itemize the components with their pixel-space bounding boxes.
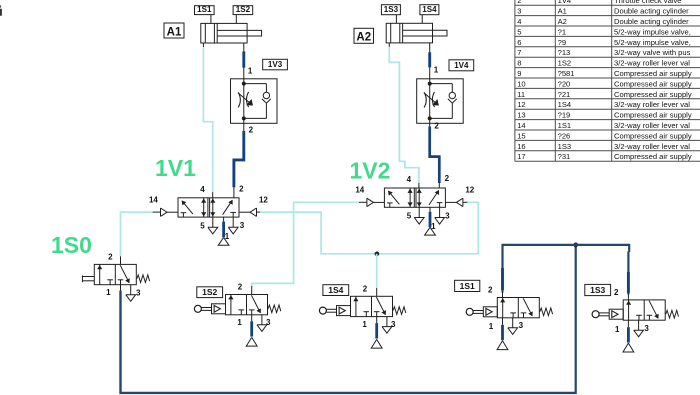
pin label 1S2 port 3 [266, 318, 271, 327]
svg-text:9: 9 [517, 69, 521, 78]
svg-text:2: 2 [434, 121, 439, 130]
pin label 1V2 port 5 [407, 212, 412, 221]
svg-text:3: 3 [519, 321, 524, 330]
svg-text:3: 3 [391, 320, 396, 329]
label box 1S3 [585, 284, 611, 295]
throttle check valve 1V4 [417, 79, 464, 124]
svg-text:17: 17 [517, 152, 525, 161]
wire A1 to 1V3 (navy) [242, 52, 245, 68]
svg-text:3: 3 [517, 7, 521, 16]
svg-text:1: 1 [434, 65, 439, 74]
svg-text:2: 2 [614, 288, 619, 297]
label box 1S2 [197, 287, 223, 298]
supply stub 1V2 port 1 [429, 212, 432, 227]
label box 1S1 [455, 280, 480, 291]
svg-text:6: 6 [517, 38, 521, 47]
svg-text:2: 2 [249, 125, 254, 134]
svg-text:Compressed air supply: Compressed air supply [614, 111, 692, 120]
svg-text:2: 2 [239, 184, 244, 193]
svg-text:11: 11 [517, 90, 525, 99]
svg-text:1: 1 [362, 320, 367, 329]
pin label 1S1 port 1 [489, 322, 494, 331]
wire 1V3 port1 stub [243, 67, 245, 78]
svg-text:3: 3 [445, 211, 450, 220]
wire A2 to 1V2 port4 (cyan) [389, 47, 419, 184]
svg-text:2: 2 [238, 283, 243, 292]
pin label 1S0 port 1 [106, 288, 111, 297]
wire 1V1 pilot12 connector [257, 211, 261, 213]
supply stub 1S1 port 1 [502, 318, 504, 340]
svg-text:14: 14 [355, 186, 364, 195]
wire 1V4 port1 stub [429, 67, 431, 79]
wire bottom rail (navy) [119, 392, 575, 394]
svg-text:Double acting cylinder: Double acting cylinder [614, 7, 689, 16]
svg-text:?31: ?31 [558, 152, 571, 161]
svg-text:12: 12 [259, 196, 268, 205]
svg-text:?13: ?13 [558, 48, 571, 57]
throttle check valve 1V3 [231, 79, 278, 124]
wire 1S1-1S3 header (navy) [503, 244, 630, 246]
wire 1S3 port2 stub [627, 294, 629, 300]
svg-text:?581: ?581 [558, 69, 575, 78]
svg-text:1V4: 1V4 [454, 61, 469, 70]
air supply 1V2 [425, 227, 436, 235]
junction node supply net [574, 243, 578, 247]
svg-text:1S1: 1S1 [197, 5, 212, 14]
5/2-way impulse valve 1V2 [367, 188, 463, 224]
wire 1S3 port2 riser thick [627, 272, 630, 293]
wire stub 1V1 port4 [212, 192, 214, 198]
pin label 1V1 port 1 [225, 232, 230, 241]
green label 1V1 [155, 155, 196, 181]
svg-text:5/2-way impulse valve,: 5/2-way impulse valve, [614, 38, 691, 47]
svg-text:1S3: 1S3 [558, 142, 572, 151]
svg-text:4: 4 [407, 175, 412, 184]
svg-text:Compressed air supply: Compressed air supply [614, 131, 692, 140]
svg-text:3: 3 [240, 221, 245, 230]
sensor label box 1S2 [233, 5, 253, 15]
svg-text:Throttle check valve: Throttle check valve [614, 0, 682, 5]
sensor label box 1S1 [195, 5, 215, 15]
wire A2 left port stub [388, 43, 390, 47]
wire pilot bus (cyan) [260, 202, 478, 254]
svg-text:3: 3 [136, 288, 141, 297]
pin label 1V2 port 12 [465, 186, 474, 195]
wire 1S2 to 1V2 pilot14 (cyan) [252, 202, 360, 286]
wire stub 1V2 pilot14 [359, 201, 367, 203]
svg-text:5: 5 [517, 27, 521, 36]
pin label 1V3 port 1 [248, 67, 253, 76]
svg-text:13: 13 [517, 111, 525, 120]
stray cut-off marks top-left [0, 6, 2, 16]
svg-text:1S1: 1S1 [460, 281, 475, 291]
wire 1S3 port2 riser (navy) [627, 244, 630, 295]
sensor label box 1S4 [420, 5, 439, 15]
wire 1S1 port2 riser thick [501, 268, 504, 290]
wire stub 1V2 pilot12 [463, 201, 467, 203]
svg-text:1S2: 1S2 [558, 59, 572, 68]
wire 1S0 supply riser (navy) [119, 291, 121, 393]
supply stub 1S3 port 1 [627, 320, 629, 342]
5/2-way impulse valve 1V1 [161, 198, 257, 234]
label box 1S4 [323, 285, 349, 296]
svg-text:A2: A2 [558, 17, 567, 26]
svg-text:12: 12 [517, 100, 525, 109]
wire stub 1V2 port2 [438, 183, 440, 188]
pin label 1V1 port 4 [200, 185, 205, 194]
svg-text:7: 7 [517, 48, 521, 57]
wire stub 1V1 pilot14 [153, 211, 161, 213]
green label 1S0 [51, 232, 92, 258]
svg-text:4: 4 [517, 17, 521, 26]
pin label 1V2 port 2 [445, 174, 450, 183]
sensor stub 1S1 [210, 15, 212, 24]
wire 1S1 port2 stub [502, 292, 504, 298]
pin label 1S3 port 2 [614, 288, 619, 297]
pin label 1S1 port 2 [488, 286, 493, 295]
svg-text:1: 1 [106, 288, 111, 297]
svg-text:1S4: 1S4 [422, 5, 437, 14]
wire 1S2 port2 stub [251, 286, 253, 295]
parts list table [515, 0, 700, 161]
pin label 1S0 port 3 [136, 288, 141, 297]
wire rail riser (navy) [575, 245, 577, 394]
wire A1 right port stub [243, 43, 245, 52]
pin label 1S0 port 2 [108, 252, 113, 261]
sensor stub 1S4 [421, 15, 423, 24]
pin label 1S2 port 2 [238, 283, 243, 292]
pin label 1V2 port 1 [431, 222, 436, 231]
air supply 1S1 [497, 341, 508, 350]
3/2-way pushbutton valve 1S0 [82, 264, 149, 301]
svg-text:A2: A2 [356, 32, 371, 44]
pin label 1V1 port 5 [200, 221, 205, 230]
pin label 1V1 port 12 [259, 196, 268, 205]
pin label 1S4 port 2 [363, 284, 368, 293]
pin label 1V1 port 14 [149, 196, 158, 205]
svg-text:1: 1 [248, 67, 253, 76]
svg-text:5: 5 [200, 221, 205, 230]
svg-text:3/2-way roller lever val: 3/2-way roller lever val [614, 100, 690, 109]
sensor label box 1S3 [381, 5, 400, 15]
label box A2 [354, 28, 374, 43]
svg-text:1S1: 1S1 [558, 121, 572, 130]
pin label 1S3 port 3 [644, 324, 649, 333]
svg-text:?19: ?19 [558, 111, 571, 120]
svg-text:1S3: 1S3 [384, 5, 399, 14]
pin label 1V1 port 3 [240, 221, 245, 230]
pin label 1S4 port 1 [362, 320, 367, 329]
svg-text:12: 12 [465, 186, 474, 195]
wire A2 to 1V4 (navy) [428, 52, 431, 67]
wire 1S0 port1 stub [120, 285, 122, 291]
supply stub 1S2 port 1 [251, 315, 253, 337]
pin label 1V4 port 2 [434, 121, 439, 130]
svg-text:?26: ?26 [558, 131, 571, 140]
wire 1V4 to 1V2 port2 (navy) [430, 127, 440, 184]
3/2-way roller lever valve 1S2 [194, 295, 280, 332]
wire 1S0 to 1V1 pilot14 (cyan) [121, 212, 154, 256]
wire 1V4 port2 stub [429, 123, 431, 127]
3/2-way roller lever valve 1S1 [466, 298, 552, 335]
pin label 1V2 port 3 [445, 211, 450, 220]
svg-text:A1: A1 [558, 7, 567, 16]
sensor stub 1S2 [235, 15, 237, 24]
wire 1V3 to 1V1 port2 (navy) [234, 131, 244, 187]
svg-text:1V3: 1V3 [268, 60, 283, 69]
svg-text:Compressed air supply: Compressed air supply [614, 69, 692, 78]
wire 1S1 port2 riser (navy) [501, 244, 503, 293]
air supply 1V1 [218, 238, 229, 246]
pin label 1S1 port 3 [519, 321, 524, 330]
pin label 1V2 port 4 [407, 175, 412, 184]
svg-text:?1: ?1 [558, 27, 566, 36]
svg-text:8: 8 [517, 59, 521, 68]
wire 1V3 port2 stub [243, 123, 245, 131]
pin label 1V2 port 14 [355, 186, 364, 195]
svg-text:3/2-way roller lever val: 3/2-way roller lever val [614, 59, 690, 68]
wire 1S0 port2 stub [120, 256, 122, 264]
label box A1 [164, 23, 184, 38]
supply stub 1V1 port 1 [222, 222, 225, 238]
svg-text:2: 2 [445, 174, 450, 183]
svg-text:1S3: 1S3 [590, 285, 605, 295]
svg-text:16: 16 [517, 142, 525, 151]
svg-text:1: 1 [237, 318, 242, 327]
svg-text:1S0: 1S0 [51, 232, 92, 258]
svg-text:Compressed air supply: Compressed air supply [614, 79, 692, 88]
svg-text:10: 10 [517, 79, 525, 88]
svg-text:3/2-way valve with pus: 3/2-way valve with pus [614, 48, 691, 57]
pin label 1S3 port 1 [615, 325, 620, 334]
svg-text:?20: ?20 [558, 79, 571, 88]
wire stub 1V2 port4 [418, 183, 420, 188]
svg-text:1: 1 [489, 322, 494, 331]
svg-text:14: 14 [517, 121, 525, 130]
wire A1 to 1V1 port4 (cyan) [203, 47, 212, 193]
svg-text:14: 14 [149, 196, 158, 205]
pin label 1S4 port 3 [391, 320, 396, 329]
sensor stub 1S3 [395, 15, 397, 24]
svg-text:15: 15 [517, 131, 525, 140]
wire 1S4 port2 riser (cyan) [376, 254, 378, 288]
svg-text:Compressed air supply: Compressed air supply [614, 152, 692, 161]
pin label 1V1 port 2 [239, 184, 244, 193]
svg-text:?21: ?21 [558, 90, 571, 99]
svg-text:2: 2 [517, 0, 521, 5]
svg-text:1V2: 1V2 [350, 158, 391, 184]
cylinder A1 [201, 23, 262, 43]
pin label 1V4 port 1 [434, 65, 439, 74]
svg-text:4: 4 [200, 185, 205, 194]
svg-text:1V1: 1V1 [155, 155, 196, 181]
green label 1V2 [350, 158, 391, 184]
junction node pilot bus / 1S4 [375, 252, 379, 256]
svg-text:3/2-way roller lever val: 3/2-way roller lever val [614, 142, 690, 151]
svg-text:A1: A1 [167, 26, 182, 38]
svg-text:1V4: 1V4 [558, 0, 572, 5]
pin label 1V3 port 2 [249, 125, 254, 134]
svg-text:1: 1 [615, 325, 620, 334]
svg-text:2: 2 [108, 252, 113, 261]
wire 1S4 port2 stub [376, 288, 378, 296]
cylinder A2 [386, 23, 447, 43]
svg-text:2: 2 [363, 284, 368, 293]
air supply 1S2 [246, 337, 257, 346]
svg-text:1S2: 1S2 [236, 5, 251, 14]
svg-text:3: 3 [644, 324, 649, 333]
svg-text:Compressed air supply: Compressed air supply [614, 90, 692, 99]
supply stub 1S4 port 1 [376, 317, 378, 339]
label box 1V4 [449, 60, 474, 71]
svg-text:?9: ?9 [558, 38, 566, 47]
svg-text:1S2: 1S2 [202, 287, 217, 297]
pin label 1S2 port 1 [237, 318, 242, 327]
svg-text:Double acting cylinder: Double acting cylinder [614, 17, 689, 26]
air supply 1S4 [371, 339, 382, 348]
3/2-way roller lever valve 1S4 [319, 296, 405, 333]
wire stub 1V1 port2 [233, 187, 235, 198]
3/2-way roller lever valve 1S3 [592, 300, 678, 337]
svg-text:1S4: 1S4 [328, 285, 343, 295]
svg-text:3/2-way roller lever val: 3/2-way roller lever val [614, 121, 690, 130]
air supply 1S3 [623, 343, 634, 352]
svg-text:5: 5 [407, 212, 412, 221]
wire A1 left port stub [202, 43, 204, 48]
label box 1V3 [263, 59, 288, 70]
svg-text:2: 2 [488, 286, 493, 295]
svg-text:5/2-way impulse valve,: 5/2-way impulse valve, [614, 27, 691, 36]
svg-text:3: 3 [266, 318, 271, 327]
wire A2 right port stub [429, 43, 431, 53]
svg-text:1S4: 1S4 [558, 100, 572, 109]
